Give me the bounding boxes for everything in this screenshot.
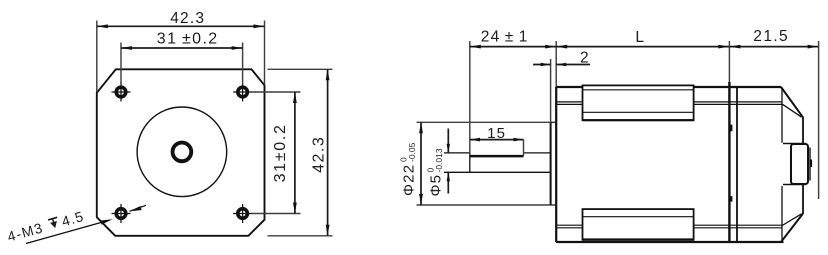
svg-text:-0.05: -0.05 xyxy=(407,142,417,162)
rear cover outline xyxy=(781,87,803,117)
svg-text:Φ5: Φ5 xyxy=(428,174,445,197)
pilot boss circle front view xyxy=(137,107,227,197)
corner chamfer lines top xyxy=(556,101,582,103)
svg-text:-0.013: -0.013 xyxy=(434,148,444,172)
dimension 31±0.2 horizontal xyxy=(120,43,122,85)
rear housing boundary lines xyxy=(728,82,730,242)
dimension L xyxy=(556,46,729,48)
motor body bottom edge xyxy=(556,241,783,243)
screw marks on boundary xyxy=(730,125,733,132)
dimension 15 shaft flat xyxy=(470,139,524,141)
boss extension line up xyxy=(550,59,552,122)
dimension phi5 with tolerance xyxy=(444,152,470,154)
svg-text:4-M3: 4-M3 xyxy=(5,219,45,244)
leader line for 4-M3 tapped holes xyxy=(26,220,109,243)
mounting hole 3 with crosshair xyxy=(116,209,126,219)
phi22 extension lines xyxy=(417,121,551,123)
svg-text:4.5: 4.5 xyxy=(60,208,86,229)
shaft flat (D-cut) edge xyxy=(470,155,524,158)
dimension 42.3 horizontal top xyxy=(96,21,98,93)
shaft circle front view xyxy=(173,143,192,162)
dimension 21.5 xyxy=(729,46,818,48)
svg-text:15: 15 xyxy=(487,125,506,142)
pilot boss side view xyxy=(550,122,552,205)
connector on rear cover xyxy=(783,143,806,145)
front plate face xyxy=(555,87,557,242)
svg-text:21.5: 21.5 xyxy=(753,28,789,45)
dimension 42.3 vertical right side xyxy=(268,68,333,70)
stator lamination band bottom xyxy=(583,209,694,240)
mounting hole 2 with crosshair xyxy=(238,87,248,97)
svg-text:31±0.2: 31±0.2 xyxy=(272,123,289,182)
mounting hole 4 with crosshair xyxy=(238,209,248,219)
svg-text:42.3: 42.3 xyxy=(311,136,328,173)
shaft side view xyxy=(444,152,470,154)
dimension 31±0.2 vertical right side xyxy=(252,91,301,93)
stator lamination band top xyxy=(583,85,694,120)
dimension 2 boss depth xyxy=(533,64,551,66)
motor front view body outline xyxy=(97,69,265,236)
label 4-M3 depth 4.5 xyxy=(5,208,85,245)
mounting hole 1 with crosshair xyxy=(116,87,126,97)
svg-text:L: L xyxy=(635,29,644,46)
dimension 24±1 xyxy=(469,41,471,153)
svg-text:31 ±0.2: 31 ±0.2 xyxy=(157,30,219,47)
svg-text:42.3: 42.3 xyxy=(170,10,205,27)
corner chamfer lines bottom xyxy=(556,224,582,226)
dimension phi22 with tolerance xyxy=(420,122,422,205)
15 dim right extension xyxy=(523,140,525,157)
motor body top edge xyxy=(556,86,582,88)
svg-text:Φ22: Φ22 xyxy=(401,164,418,196)
svg-text:24 ± 1: 24 ± 1 xyxy=(481,28,529,45)
svg-text:2: 2 xyxy=(580,50,589,67)
